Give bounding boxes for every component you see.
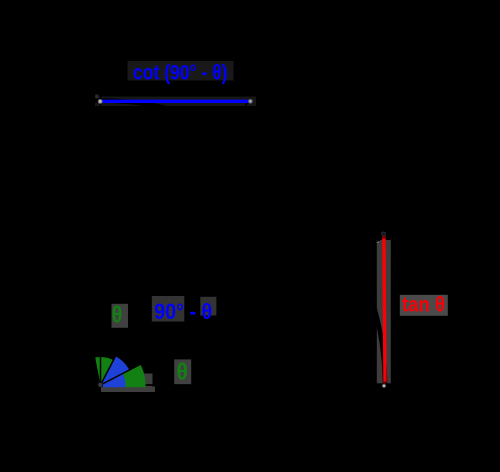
sector bottom bleed blue — [103, 385, 126, 387]
horizontal axis — [95, 384, 391, 386]
endpoint dot left of cot segment — [98, 99, 103, 104]
svg-text:θ: θ — [176, 359, 188, 385]
endpoint dot right of cot segment — [248, 99, 253, 104]
dark red tail of red segment — [383, 382, 386, 384]
vertical axis — [100, 95, 102, 385]
radius line at angle theta extended to tangent — [101, 237, 386, 385]
svg-text:θ: θ — [112, 301, 123, 327]
endpoint dot top of tan segment — [382, 232, 386, 236]
sector bottom bleed green — [126, 385, 146, 387]
circle arc (black, visible only over halos) — [0, 101, 385, 472]
svg-text:cot (90° - θ): cot (90° - θ) — [133, 61, 228, 84]
halo band along red tan segment — [377, 240, 391, 383]
svg-text:tan θ: tan θ — [402, 292, 445, 316]
halo box of green theta label 2 — [174, 359, 191, 384]
green sector theta at vertical axis — [95, 357, 113, 385]
dark red tip of red segment — [382, 236, 385, 239]
endpoint dot bottom of tan segment — [382, 384, 387, 389]
halo box of 90deg label — [152, 296, 185, 322]
blue sector lower part — [101, 374, 126, 386]
red segment tan(theta) — [384, 237, 385, 382]
halo band along blue cot segment — [95, 97, 256, 107]
blue sector 90-theta between radius and coradius — [101, 356, 130, 385]
blue segment cot(90-theta) — [101, 100, 249, 103]
green sector theta at x-axis — [101, 364, 146, 385]
vertex dot at origin — [98, 383, 103, 388]
halo smudge above left endpoint — [95, 95, 98, 103]
coradius line at 90-theta to top tangent point — [101, 101, 249, 386]
halo box of theta in 90-theta label — [200, 297, 216, 316]
halo block right of green sector — [144, 374, 153, 388]
halo band of cot label — [128, 61, 234, 81]
halo band below sectors — [101, 387, 155, 393]
svg-text:90° - θ: 90° - θ — [154, 299, 212, 324]
light speck top-left of red band — [377, 240, 380, 243]
halo box of green theta label 1 — [112, 304, 129, 328]
halo box of tan theta label — [400, 295, 448, 316]
